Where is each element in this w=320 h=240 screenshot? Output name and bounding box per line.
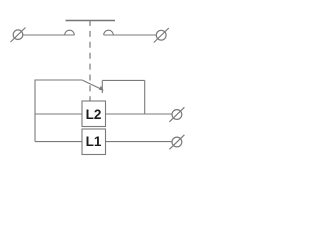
left contact dome <box>65 30 75 35</box>
wire L2 right to terminal <box>106 113 173 115</box>
right fixed contact vertical <box>101 80 103 93</box>
terminal left (circle with slash) <box>11 28 26 43</box>
pushbutton actuator bar <box>66 20 116 22</box>
relay coil L2 box <box>82 101 106 127</box>
svg-text:L2: L2 <box>86 107 102 122</box>
terminal bottom right 1 (circle with slash) <box>169 107 184 122</box>
switch blade with arrowhead <box>83 80 104 90</box>
right contact dome <box>104 30 114 35</box>
svg-text:L1: L1 <box>86 134 102 149</box>
relay coil L1 box <box>82 129 106 155</box>
wire right contact to right terminal <box>104 34 157 36</box>
wire L1 left <box>35 141 82 143</box>
wire L1 right to terminal <box>106 141 173 143</box>
wire blade contact to right drop <box>102 79 144 81</box>
dashed mechanical link <box>89 20 91 101</box>
right drop wire <box>144 80 146 114</box>
wire left terminal to left contact <box>23 34 75 36</box>
wire L2 left <box>35 113 82 115</box>
terminal right top (circle with slash) <box>154 28 169 43</box>
left rail <box>34 80 36 142</box>
terminal bottom right 2 (circle with slash) <box>169 135 184 150</box>
wire top left to blade pivot <box>35 79 83 81</box>
